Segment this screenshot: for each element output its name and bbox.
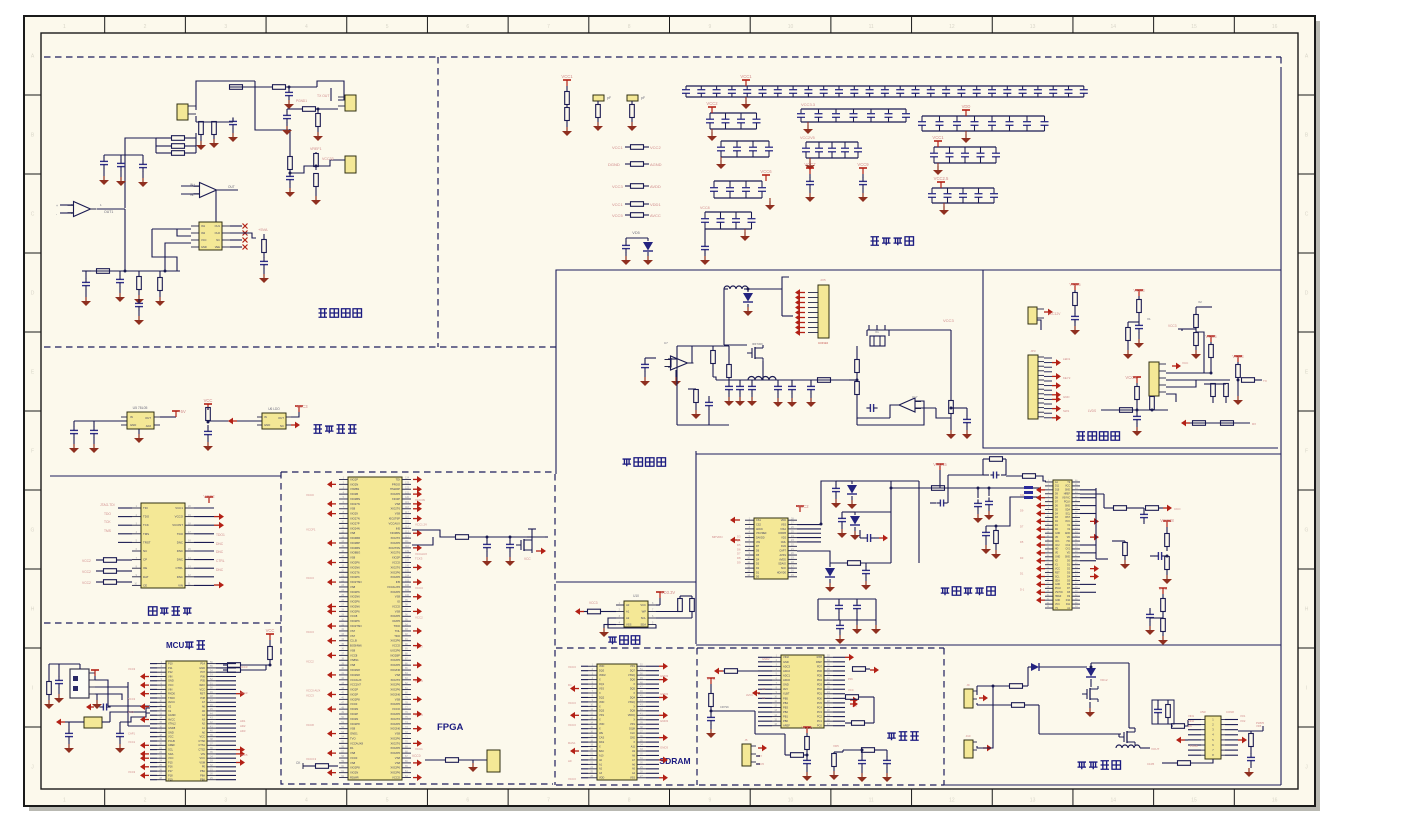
capacitor row CR1 (long top)	[686, 85, 1084, 87]
svg-text:VD: VD	[1055, 537, 1059, 539]
module boundary: fpga dashed box	[281, 472, 553, 784]
svg-text:VS8: VS8	[395, 756, 401, 760]
module boundary: ext-drive bottom solid	[944, 784, 1281, 786]
svg-text:VCC3: VCC3	[568, 723, 576, 727]
svg-text:13: 13	[1030, 24, 1036, 30]
resistor R97	[1193, 421, 1206, 426]
svg-text:GND: GND	[783, 660, 789, 664]
svg-text:GND: GND	[1055, 584, 1060, 586]
svg-text:VCCAUX: VCCAUX	[350, 678, 362, 682]
svg-text:NC: NC	[280, 424, 284, 428]
svg-text:11: 11	[869, 798, 874, 804]
svg-text:VCCO: VCCO	[175, 515, 184, 519]
svg-text:XIO2P6: XIO2P6	[390, 658, 400, 662]
resistor R93 v	[1211, 384, 1216, 397]
ground G25	[289, 188, 291, 192]
small box cluster	[1152, 700, 1174, 724]
usb top wire	[49, 663, 80, 665]
module boundary: opamp1 bottom dashed	[44, 346, 556, 348]
svg-text:102: 102	[405, 584, 410, 587]
svg-text:8: 8	[628, 24, 631, 30]
svg-text:VIN: VIN	[168, 687, 172, 691]
svg-text:107: 107	[405, 560, 410, 563]
crystal Y1	[84, 717, 102, 728]
ground G1	[566, 127, 568, 131]
svg-text:P8A: P8A	[200, 773, 205, 777]
svg-text:XIO2N8: XIO2N8	[350, 673, 360, 677]
U8 right arrows	[236, 693, 240, 695]
svg-text:VCC2: VCC2	[650, 145, 661, 150]
capacitor C65	[839, 620, 841, 622]
svg-text:D9: D9	[1020, 509, 1024, 513]
svg-text:D4: D4	[737, 539, 741, 543]
regulator U5	[127, 412, 154, 429]
connector J3	[345, 156, 356, 173]
svg-text:BA0: BA0	[599, 750, 604, 753]
svg-text:pF: pF	[641, 96, 645, 100]
svg-text:XIO2P: XIO2P	[350, 688, 358, 692]
svg-text:FPGA: FPGA	[437, 722, 464, 733]
svg-text:CS2: CS2	[756, 523, 761, 526]
ground G26	[315, 196, 317, 200]
resistor R23 v	[316, 114, 321, 127]
wire conn jog	[782, 277, 789, 289]
svg-text:VREF1: VREF1	[310, 147, 322, 151]
svg-text:VCC1: VCC1	[561, 74, 573, 79]
svg-text:DQ8: DQ8	[630, 710, 636, 713]
K2 arrow	[983, 747, 987, 749]
svg-text:P0: P0	[202, 765, 206, 769]
svg-text:XIO2P6: XIO2P6	[390, 702, 400, 706]
svg-text:15: 15	[1191, 24, 1197, 30]
capacitor C20	[288, 87, 290, 89]
connector J2	[345, 95, 356, 111]
svg-text:CK2: CK2	[1066, 545, 1071, 547]
svg-text:X2: X2	[1198, 300, 1202, 304]
svg-text:CK1: CK1	[1055, 541, 1060, 543]
wire rail	[716, 379, 849, 381]
svg-text:VCC3: VCC3	[568, 665, 576, 669]
svg-text:ADJ: ADJ	[146, 424, 152, 428]
svg-text:VCC2.5: VCC2.5	[934, 176, 949, 181]
resistor R24 v	[288, 157, 293, 170]
svg-text:VSS: VSS	[781, 523, 786, 526]
svg-text:P18: P18	[168, 773, 173, 777]
svg-text:VCC3: VCC3	[415, 586, 423, 590]
vcc EI4	[1210, 336, 1212, 342]
capacitor C66 h	[939, 500, 941, 507]
ground G18	[85, 297, 87, 301]
svg-text:IN5: IN5	[396, 526, 401, 530]
svg-text:113: 113	[405, 530, 409, 533]
connector J5	[742, 744, 751, 766]
resistor R31 v	[206, 408, 211, 421]
resistor R41 v	[268, 647, 273, 660]
svg-text:IRF7309: IRF7309	[752, 342, 763, 346]
svg-text:VCC5: VCC5	[240, 753, 248, 757]
svg-text:A0: A0	[626, 603, 630, 607]
svg-text:RSIP: RSIP	[816, 660, 822, 664]
wire ip mid	[797, 551, 830, 563]
ground G21	[138, 316, 140, 320]
ground G61	[603, 624, 605, 628]
svg-text:XIO2P6: XIO2P6	[350, 609, 360, 613]
wire top bus ip	[852, 480, 891, 482]
svg-text:PC2: PC2	[817, 715, 823, 719]
svg-text:P8A: P8A	[200, 769, 205, 773]
svg-text:16: 16	[1272, 24, 1278, 30]
svg-text:VCC3: VCC3	[296, 404, 308, 409]
svg-text:I: I	[32, 686, 33, 692]
ground G2	[597, 122, 599, 126]
svg-text:C: C	[1305, 212, 1309, 218]
vcc chain U12 left	[710, 678, 712, 684]
svg-text:VSS: VSS	[630, 665, 635, 668]
ground G12	[213, 139, 215, 143]
ground G33	[138, 429, 140, 434]
svg-text:P15: P15	[168, 760, 173, 764]
U13 left arrows	[735, 519, 740, 521]
svg-text:TXD0: TXD0	[168, 696, 175, 700]
svg-text:DNC: DNC	[216, 568, 224, 572]
label yun-fang-mo-kuai (op-amp module 1)	[319, 309, 328, 318]
resistor R17	[172, 151, 185, 156]
svg-text:SW1: SW1	[1063, 409, 1070, 413]
svg-text:OUT1: OUT1	[104, 210, 113, 214]
svg-text:XIO27N: XIO27N	[350, 502, 360, 506]
U18 left arrow	[1181, 739, 1185, 741]
wire ip top strip	[918, 481, 920, 563]
svg-text:PD1: PD1	[817, 692, 823, 696]
U18 right wires	[1225, 719, 1238, 721]
svg-text:VCC0: VCC0	[306, 493, 314, 497]
vcc below U12	[806, 727, 808, 733]
svg-text:+: +	[56, 204, 58, 208]
svg-text:PD7: PD7	[817, 664, 823, 668]
svg-text:MPVDN: MPVDN	[712, 535, 722, 539]
svg-text:VIN: VIN	[168, 674, 172, 678]
capacitor C77b	[791, 380, 793, 383]
ic U12 (AVR MCU)	[781, 655, 824, 728]
svg-text:F: F	[1305, 449, 1308, 455]
svg-text:PD3: PD3	[817, 683, 823, 687]
svg-text:XIO2P6: XIO2P6	[390, 570, 400, 574]
svg-text:XIO2P6: XIO2P6	[350, 575, 360, 579]
svg-text:VCC15: VCC15	[933, 462, 947, 467]
wire U1 in stubs	[60, 204, 73, 206]
capacitor C31	[70, 429, 78, 431]
capacitor C67	[977, 488, 979, 498]
wire U14 right bus	[1095, 488, 1097, 559]
svg-text:GND: GND	[783, 683, 789, 687]
svg-text:GND2: GND2	[762, 657, 770, 661]
svg-text:U5R: U5R	[1200, 710, 1206, 714]
capacitor C50	[861, 750, 863, 757]
wire u18 right net	[1238, 730, 1263, 732]
resistor R84	[1172, 724, 1185, 729]
svg-text:GND3: GND3	[660, 674, 668, 678]
svg-text:VCC8: VCC8	[306, 723, 314, 727]
svg-text:VCC3: VCC3	[943, 318, 954, 323]
svg-text:AVDD: AVDD	[650, 184, 661, 189]
svg-text:PB0: PB0	[783, 719, 788, 723]
svg-text:ADCK: ADCK	[756, 528, 763, 531]
svg-text:116: 116	[405, 516, 409, 519]
svg-text:2X5: 2X5	[820, 278, 826, 282]
vcc VCC41	[269, 634, 271, 640]
svg-text:P07: P07	[200, 670, 205, 674]
resistor R69 v	[1161, 619, 1166, 632]
wire x1 to vcc3	[889, 329, 951, 331]
svg-text:A3: A3	[202, 717, 206, 721]
svg-text:VS8: VS8	[395, 502, 401, 506]
svg-text:XIO2T6: XIO2T6	[391, 678, 401, 682]
svg-text:VS8: VS8	[350, 556, 356, 560]
svg-text:XIO2P6: XIO2P6	[390, 736, 400, 740]
ground G49	[806, 772, 808, 776]
vcc chain EI2	[1138, 290, 1140, 296]
svg-text:VD: VD	[1055, 553, 1059, 555]
svg-text:VS8: VS8	[395, 761, 401, 765]
K2 wires	[977, 686, 993, 748]
svg-text:VIN2: VIN2	[783, 655, 789, 659]
resistor R73 v	[727, 365, 732, 378]
label cun-chu-qi (memory)	[608, 637, 617, 644]
wire fb bottom	[677, 424, 729, 426]
svg-text:VS8: VS8	[395, 732, 401, 736]
ground G94	[1195, 350, 1197, 354]
svg-text:CTS1: CTS1	[198, 743, 205, 747]
svg-text:G: G	[1305, 528, 1309, 534]
svg-text:100: 100	[405, 594, 410, 597]
wire bottom bus	[91, 270, 180, 272]
resistor R72 v	[711, 351, 716, 364]
module boundary: right solid edge	[1280, 67, 1282, 785]
capacitor C13	[100, 160, 108, 162]
wire mid bus	[849, 379, 857, 381]
op-amp U1	[74, 202, 91, 217]
svg-text:XIO2T6: XIO2T6	[391, 536, 401, 540]
svg-text:VCC: VCC	[848, 688, 854, 692]
ground G76	[966, 430, 968, 434]
capacitor row CR7	[934, 146, 996, 148]
svg-text:15: 15	[1191, 798, 1197, 804]
rc loop left	[948, 474, 983, 476]
svg-text:XIO2N6: XIO2N6	[390, 668, 400, 672]
resistor R1 (filter vertical pair)	[566, 86, 568, 92]
svg-text:14: 14	[1110, 798, 1116, 804]
wire riser right of U13	[821, 481, 836, 524]
svg-text:XIO2T6: XIO2T6	[391, 741, 401, 745]
svg-text:XIO2P8: XIO2P8	[350, 697, 360, 701]
svg-text:TX OUT: TX OUT	[317, 94, 329, 98]
svg-text:A2: A2	[626, 616, 630, 620]
resistor R12	[273, 85, 286, 90]
resistor R14 v	[212, 122, 217, 135]
svg-text:DNC: DNC	[177, 558, 183, 562]
svg-text:SDA: SDA	[1055, 579, 1060, 582]
svg-text:XIO2P6: XIO2P6	[390, 575, 400, 579]
ic U7 (programmer)	[141, 503, 185, 588]
ground G74	[695, 410, 697, 414]
resistor R11	[230, 85, 243, 90]
svg-text:U10: U10	[633, 594, 639, 598]
svg-text:VS8: VS8	[350, 663, 356, 667]
svg-text:PB1: PB1	[783, 715, 788, 719]
svg-text:VCC2: VCC2	[82, 570, 91, 574]
svg-text:IO: IO	[397, 600, 400, 604]
capacitor C48 h	[102, 704, 104, 711]
svg-text:GND: GND	[199, 666, 205, 670]
svg-text:XIO2T6N: XIO2T6N	[350, 624, 361, 628]
resistor R77 v	[949, 401, 954, 414]
svg-text:VCC: VCC	[204, 398, 213, 403]
ground G24	[317, 132, 319, 136]
wire EI h bus	[1101, 409, 1168, 411]
capacitor C52	[509, 537, 511, 541]
svg-text:VSYNC: VSYNC	[1055, 592, 1063, 594]
connector K2	[964, 740, 973, 758]
svg-text:A11: A11	[631, 745, 636, 748]
svg-text:XIO2P8: XIO2P8	[350, 722, 360, 726]
svg-text:J10: J10	[966, 734, 971, 738]
svg-text:ADC2: ADC2	[783, 669, 790, 673]
svg-text:PB2: PB2	[783, 710, 788, 714]
svg-text:VEE: VEE	[215, 245, 220, 249]
svg-text:DNC: DNC	[216, 550, 224, 554]
svg-text:PC1: PC1	[817, 719, 823, 723]
wire u15 fb left	[676, 346, 678, 425]
svg-text:RXD: RXD	[128, 710, 134, 714]
capacitor row CR4	[922, 115, 1045, 117]
svg-text:10: 10	[788, 24, 794, 30]
svg-text:PWR5: PWR5	[1256, 721, 1265, 725]
wire u17 out	[890, 405, 899, 418]
svg-text:RAS1: RAS1	[568, 741, 576, 745]
svg-text:XIO2N6: XIO2N6	[390, 727, 400, 731]
svg-text:VCC2: VCC2	[306, 659, 314, 663]
ground G91	[1074, 326, 1076, 330]
svg-text:DAVDD: DAVDD	[756, 536, 765, 539]
svg-text:U6 LDO: U6 LDO	[268, 407, 280, 411]
cluster EI3c	[1194, 333, 1199, 346]
svg-text:CK2: CK2	[1055, 545, 1060, 547]
svg-text:DQM: DQM	[629, 728, 635, 731]
ground G27	[286, 126, 288, 130]
crystal X2 (blue bars)	[1024, 486, 1033, 489]
svg-text:VDD1: VDD1	[650, 202, 661, 207]
svg-text:TRST: TRST	[143, 540, 151, 544]
svg-text:OUT: OUT	[145, 416, 151, 420]
svg-text:VCC1.2V: VCC1.2V	[415, 522, 427, 526]
ground G75	[950, 430, 952, 434]
svg-text:P8A: P8A	[200, 778, 205, 782]
resistor R61	[848, 561, 861, 566]
svg-text:VDD: VDD	[781, 519, 786, 522]
svg-text:VS8: VS8	[350, 585, 356, 589]
ground G92	[1138, 339, 1140, 343]
resistor R66	[1146, 506, 1159, 511]
svg-text:G: G	[31, 528, 35, 534]
label wai-bu-qu-dong (external drive)	[1078, 762, 1087, 769]
svg-text:VCC: VCC	[524, 557, 531, 561]
svg-text:112: 112	[405, 535, 409, 538]
svg-text:16: 16	[1272, 798, 1278, 804]
ground G15	[120, 177, 122, 181]
svg-text:VCC: VCC	[1065, 521, 1070, 523]
resistor R43 v	[47, 682, 52, 695]
svg-text:P17: P17	[168, 769, 173, 773]
vcc EI5	[1237, 356, 1239, 362]
svg-text:2: 2	[144, 798, 147, 804]
svg-text:VCC3: VCC3	[568, 777, 576, 781]
capacitor C15	[139, 163, 147, 165]
svg-text:9: 9	[708, 798, 711, 804]
svg-text:P16: P16	[168, 765, 173, 769]
ground G4	[625, 256, 627, 260]
svg-text:VCC: VCC	[1065, 486, 1070, 488]
svg-text:D3: D3	[1020, 556, 1024, 560]
diode D62	[854, 512, 856, 515]
svg-text:VIN2: VIN2	[1188, 719, 1194, 723]
vcc net ip right	[1166, 521, 1168, 527]
svg-text:VSS: VSS	[599, 714, 604, 717]
ic U14 (image processor DSP)	[1053, 480, 1072, 610]
module boundary: opamp2 solid box	[556, 270, 1281, 474]
capacitor C82	[963, 418, 971, 420]
capacitor C84	[1154, 708, 1162, 710]
resistor R82b	[1012, 703, 1025, 708]
U14 right arrows	[1090, 520, 1094, 522]
svg-text:118: 118	[405, 506, 409, 509]
transistor Q71	[754, 347, 756, 359]
svg-text:VS/VREF: VS/VREF	[756, 532, 767, 535]
wire U2 net down	[199, 190, 216, 224]
svg-text:VCC: VCC	[266, 628, 275, 633]
svg-text:SDA/O: SDA/O	[778, 563, 786, 566]
svg-text:VISA: VISA	[780, 528, 786, 531]
wire usb bus	[127, 682, 129, 726]
capacitor C76b	[739, 380, 741, 383]
U12 right arrows mid	[850, 699, 853, 701]
svg-text:VCC0: VCC0	[350, 756, 358, 760]
svg-text:XIO2P6: XIO2P6	[350, 560, 360, 564]
svg-text:GND: GND	[1065, 490, 1070, 492]
svg-text:D6: D6	[737, 547, 741, 551]
svg-text:VS7: VS7	[350, 629, 356, 633]
svg-text:DQ5: DQ5	[630, 687, 636, 690]
wire drive toprail	[1091, 662, 1129, 664]
U18 left wires	[1188, 719, 1201, 721]
resistor R51	[456, 535, 469, 540]
capacitor C68	[988, 488, 990, 496]
svg-text:JTAG-TDI: JTAG-TDI	[100, 503, 115, 507]
svg-text:XIO2BP: XIO2BP	[350, 541, 360, 545]
svg-text:AVCC: AVCC	[168, 700, 175, 704]
svg-text:IN: IN	[130, 415, 133, 419]
svg-text:VCC3.3: VCC3.3	[306, 757, 317, 761]
connector J6	[1028, 307, 1037, 324]
usb wires	[95, 680, 108, 706]
resistor R86 v	[1249, 734, 1254, 747]
svg-text:WP: WP	[642, 609, 647, 613]
module boundary: prog/mcu divider dashed	[44, 622, 281, 624]
svg-text:U5 78L05: U5 78L05	[133, 406, 148, 410]
svg-text:VCC1N7: VCC1N7	[350, 683, 361, 687]
ic U11 (SDRAM)	[597, 664, 637, 780]
U10 left circuit	[601, 611, 616, 613]
module boundary: right dashed top corner	[1280, 57, 1282, 67]
